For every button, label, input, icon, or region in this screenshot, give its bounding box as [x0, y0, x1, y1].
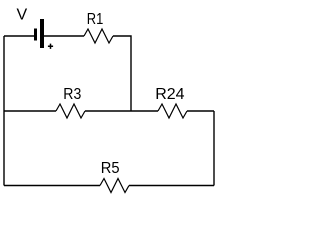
- wire: R1 to top-right corner, down to middle node: [113, 36, 131, 111]
- wire: R5 to bottom-right corner: [129, 185, 214, 187]
- wire: right rail vertical: [213, 111, 215, 186]
- wire: left rail vertical: [3, 36, 5, 186]
- resistor R24: [158, 104, 187, 118]
- wire: R24 to right corner: [187, 110, 214, 112]
- svg-text:R5: R5: [101, 160, 120, 177]
- wire: bottom rail left segment to R5: [4, 185, 100, 187]
- resistor R3: [56, 104, 85, 118]
- svg-text:R1: R1: [87, 11, 104, 28]
- battery V positive plate: [40, 19, 44, 48]
- resistor R5: [100, 179, 129, 193]
- battery V negative plate: [34, 29, 37, 41]
- wire: middle rail left segment to R3: [4, 110, 56, 112]
- wire: left rail to battery negative terminal: [4, 35, 34, 37]
- battery + polarity mark: [48, 44, 53, 49]
- wire: R3 through junction node to R24: [85, 110, 158, 112]
- svg-text:R24: R24: [155, 86, 184, 103]
- svg-text:V: V: [17, 7, 28, 24]
- wire: battery to R1: [44, 35, 84, 37]
- svg-text:R3: R3: [63, 86, 81, 103]
- resistor R1: [84, 29, 113, 43]
